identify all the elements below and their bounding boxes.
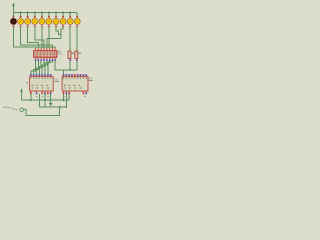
wire LED4 to RN pin4 [35, 27, 44, 49]
wire LED2 to RN pin7 [21, 27, 53, 49]
clock source symbol [20, 108, 24, 112]
resistor R2 [75, 51, 78, 61]
R1 value label [72, 53, 75, 54]
junction U2 VCC [63, 100, 64, 101]
junction rail drop [59, 106, 60, 107]
IC U1 [30, 74, 54, 94]
U1 bottom pin numbers [36, 96, 49, 97]
U2 part label [89, 80, 93, 81]
IC U2 [62, 74, 88, 94]
wire gnd rail [39, 106, 66, 108]
wire LED7 to RN pin5 [47, 27, 61, 49]
LED D3 (on) [25, 18, 31, 24]
wire gnd rail drop to clock [24, 107, 60, 116]
wire LED anode stubs [14, 13, 78, 19]
wire RN pin8 to U2 [55, 61, 63, 74]
R2 value label [79, 53, 82, 54]
junction mid vcc [44, 100, 45, 101]
LED D4 (on) [32, 18, 38, 24]
wire LED10 to R2 [76, 27, 78, 52]
LED D10 (on) [74, 18, 80, 24]
LED D7 (on) [53, 18, 59, 24]
wire RN pins to U1 top pins [31, 61, 53, 74]
LED D2 (on) [18, 18, 24, 24]
wire top rail [14, 12, 78, 14]
wire LED8 to net [61, 27, 63, 35]
wire LED5 to RN pin3 [41, 27, 43, 49]
wire U2 pin1 to VCC rail [63, 94, 65, 100]
junction U1 VCC [30, 100, 31, 101]
U1 part label [55, 81, 59, 82]
wire net horizontal [64, 69, 78, 71]
svg-text:RX8: RX8 [57, 53, 62, 56]
resistor R1 [68, 51, 71, 61]
LED D5 (on) [39, 18, 45, 24]
wire LED9 to R1 [69, 27, 71, 52]
junction dots on top rail [20, 12, 71, 13]
ground symbol [49, 94, 53, 106]
wire U1 pin to VCC rail [30, 94, 32, 100]
junction mid gnd [44, 106, 45, 107]
LED D1 (off) [11, 18, 17, 24]
U1 pin number left [26, 82, 28, 83]
junction U2 gnd [66, 106, 67, 107]
U2 bottom pin numbers [63, 96, 85, 97]
wire R1 bottom to net [69, 61, 71, 70]
pin state marks below LEDs [13, 26, 79, 27]
power symbol VCC top [12, 3, 15, 13]
wire U1 pin mid to gnd rail [44, 94, 46, 107]
LED D8 (on) [60, 18, 66, 24]
wire R2 bottom to net [76, 61, 78, 70]
power symbol VCC bottom [20, 88, 23, 100]
LED D9 (on) [67, 18, 73, 24]
pin state dots below RN1 [35, 59, 56, 61]
junction R1 net [70, 69, 71, 70]
LED D6 (on) [46, 18, 52, 24]
wire U2 pin3 down [68, 94, 70, 100]
pin state marks above LEDs [13, 16, 79, 17]
wire LED3 to RN pin2 [28, 27, 39, 49]
wire U2 pin2 to gnd rail [65, 94, 67, 107]
wire U1 pin to gnd rail [38, 94, 40, 107]
resistor pack RN1 [34, 48, 57, 60]
clock label [3, 107, 17, 110]
wire VCC rail bottom [22, 99, 70, 101]
wire LED6 to RN pin6 [48, 27, 50, 49]
wire LED1 to RN pin8 [14, 27, 56, 49]
